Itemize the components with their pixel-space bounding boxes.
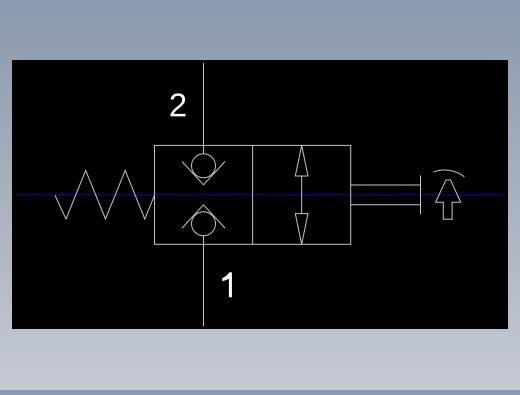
flow path line bbox=[301, 176, 303, 214]
port label 1 bbox=[222, 272, 232, 297]
drawing canvas background bbox=[12, 60, 508, 329]
actuator stem lower wire bbox=[351, 204, 421, 206]
spring return bbox=[55, 170, 155, 219]
valve body outline bbox=[155, 145, 351, 244]
flow arrowhead down bbox=[295, 214, 308, 245]
valve position divider bbox=[252, 145, 254, 244]
centerline axis (blue dashed) bbox=[17, 194, 503, 196]
manual override arrow bbox=[436, 180, 461, 219]
wire port 2 bbox=[203, 63, 205, 154]
check valve upper ball bbox=[192, 154, 216, 178]
actuator end plate bbox=[420, 176, 422, 215]
actuator stem upper wire bbox=[351, 184, 421, 186]
check valve lower seat bbox=[182, 205, 225, 228]
adjustment arc bbox=[433, 170, 464, 177]
flow arrowhead up bbox=[295, 145, 308, 176]
port label 2 bbox=[170, 93, 185, 116]
check valve lower ball bbox=[192, 212, 216, 236]
check valve upper seat bbox=[182, 162, 225, 185]
wire port 1 bbox=[203, 236, 205, 326]
